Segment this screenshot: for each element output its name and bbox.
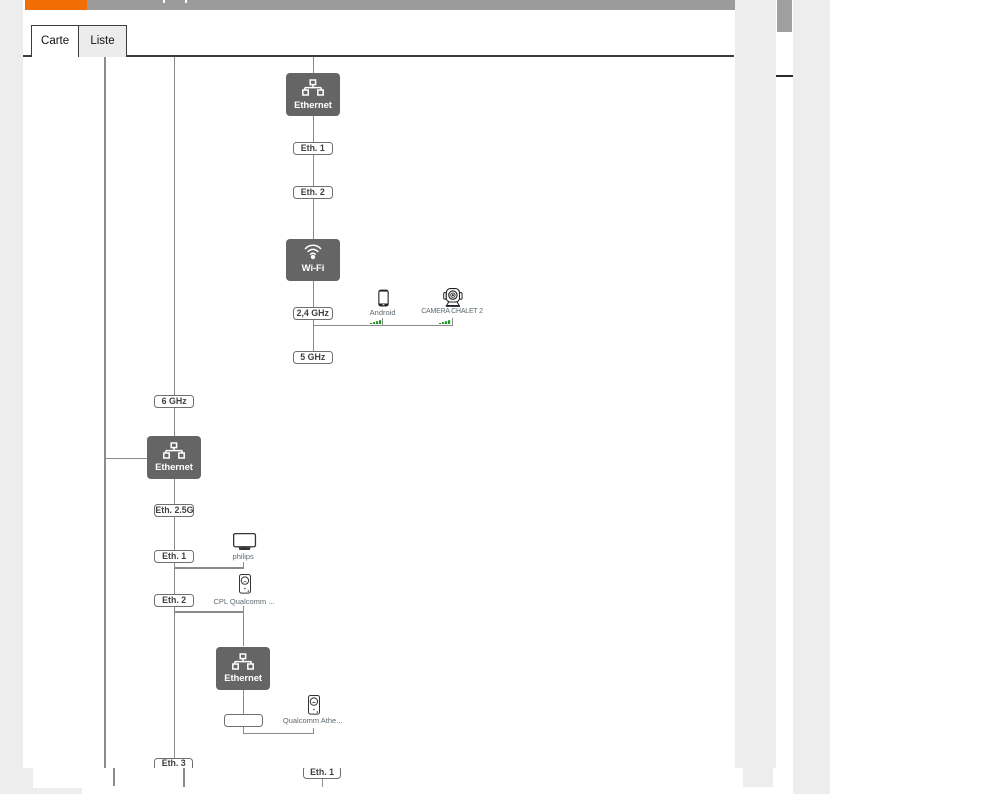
port label Eth. 2 — [293, 186, 333, 199]
port label Eth. 1 — [293, 142, 333, 155]
device camera icon CAMERA CHALET 2 — [443, 288, 463, 308]
wire cpl vertical to node3 — [243, 606, 244, 646]
device label philips — [213, 552, 273, 561]
gray header bar — [87, 0, 735, 10]
signal bars android — [370, 320, 382, 325]
wire stub philips — [243, 562, 244, 567]
device label Qualcomm Athe... — [283, 716, 343, 725]
wire qualcomm horizontal — [243, 733, 315, 734]
device philips monitor icon — [233, 533, 257, 551]
node Ethernet 1 — [286, 73, 340, 117]
node Ethernet 2 — [147, 436, 200, 478]
wire empty label down — [243, 727, 244, 732]
wire band2 eth3 stub shifted — [183, 768, 184, 787]
node Wi-Fi — [286, 239, 340, 281]
wire wifi devices horizontal — [313, 325, 453, 326]
left gray margin band 1 — [0, 0, 23, 768]
port label empty — [224, 714, 263, 727]
wire stub android — [382, 318, 383, 324]
node Ethernet 3 — [216, 647, 270, 690]
wire stub qualcomm — [313, 728, 314, 733]
wire node2 horizontal — [105, 458, 147, 459]
device Android phone icon — [378, 289, 389, 307]
left gray margin band 3 (shifted) — [0, 788, 82, 794]
tab panel top border — [23, 55, 734, 56]
device CPL Qualcomm powerline icon — [239, 574, 251, 594]
left gray margin band 2 (shifted) — [0, 768, 33, 788]
wire branch 3 (wifi column) — [313, 57, 314, 352]
scrollbar thumb — [777, 0, 792, 32]
wire band2 trunk1 shifted — [113, 768, 115, 786]
tab Liste — [79, 25, 127, 57]
port label Eth. 2 (trunk2) — [154, 594, 194, 607]
device Qualcomm Athe powerline icon — [308, 695, 320, 715]
wire stub camera — [452, 318, 453, 324]
wire trunk 1 — [104, 57, 106, 768]
dark line in scrollbar track — [776, 75, 792, 77]
port label 2,4 GHz — [293, 307, 333, 320]
wire cpl horizontal — [174, 611, 245, 612]
port label Eth. 1 (trunk2) — [154, 550, 194, 563]
header text descender 1 — [163, 0, 165, 3]
device label CPL Qualcomm ... — [214, 597, 274, 606]
port label Eth. 3 (clipped bottom) — [154, 758, 193, 767]
wire trunk 2 — [174, 57, 175, 759]
wire band2 eth1 stub shifted — [322, 778, 323, 787]
device label Android — [353, 308, 413, 317]
header text descender 2 — [185, 0, 187, 3]
device label CAMERA CHALET 2 — [412, 308, 492, 315]
wire node3 down — [243, 690, 244, 715]
signal bars camera — [439, 320, 451, 325]
port label 6 GHz — [154, 395, 194, 408]
right gray strip B — [793, 0, 830, 794]
right gray strip A band2 (shifted) — [743, 768, 773, 788]
port label Eth. 2.5G — [154, 504, 194, 517]
right gray strip A — [735, 0, 777, 768]
port label Eth. 1 band2 (clipped top) — [303, 768, 342, 780]
tab Carte (active) — [31, 25, 79, 57]
wire philips horizontal — [174, 567, 244, 568]
orange header block — [25, 0, 87, 10]
port label 5 GHz — [293, 351, 333, 364]
